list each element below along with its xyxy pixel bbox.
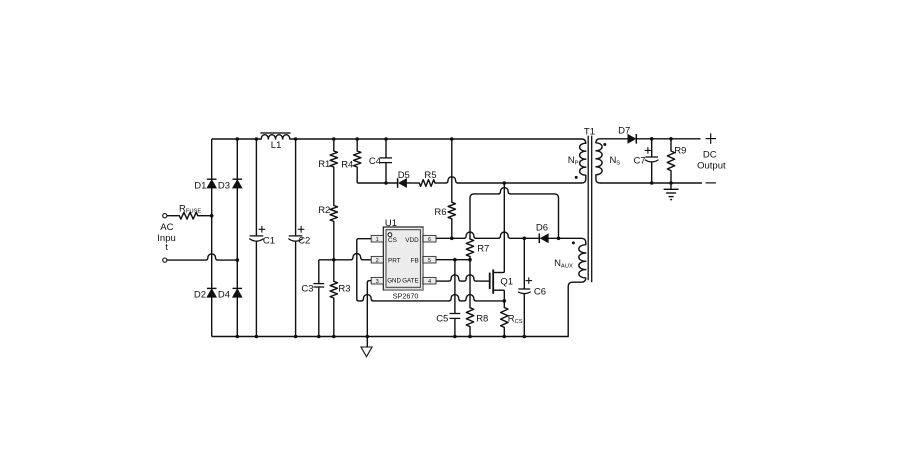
svg-text:R7: R7 [477,244,489,255]
svg-text:DC: DC [703,149,717,160]
svg-text:R1: R1 [318,159,330,170]
svg-text:SP2670: SP2670 [393,292,419,301]
svg-text:D6: D6 [536,223,548,234]
svg-text:GATE: GATE [402,278,418,285]
svg-text:1: 1 [376,237,379,243]
svg-text:D2: D2 [194,290,206,301]
svg-text:C4: C4 [369,156,381,167]
svg-text:FUSE: FUSE [186,209,202,215]
svg-text:FB: FB [411,257,419,264]
svg-text:4: 4 [428,279,431,285]
svg-text:3: 3 [376,279,379,285]
svg-text:U1: U1 [385,218,397,229]
svg-text:CS: CS [515,319,523,325]
svg-text:D7: D7 [618,126,630,137]
svg-text:R4: R4 [341,159,353,170]
svg-text:GND: GND [387,278,401,285]
svg-text:Q1: Q1 [500,277,513,288]
svg-text:C6: C6 [534,287,546,298]
svg-text:C3: C3 [301,284,313,295]
svg-text:R8: R8 [476,314,488,325]
svg-text:R2: R2 [318,205,330,216]
svg-text:t: t [165,242,168,253]
svg-text:R9: R9 [674,145,686,156]
svg-text:6: 6 [428,237,431,243]
svg-text:C2: C2 [298,236,310,247]
svg-text:C5: C5 [436,314,448,325]
svg-text:P: P [575,160,579,166]
svg-text:5: 5 [428,258,431,264]
svg-text:R5: R5 [424,170,436,181]
svg-text:L1: L1 [271,140,282,151]
svg-text:PRT: PRT [388,257,401,264]
svg-text:D3: D3 [218,180,230,191]
svg-text:T1: T1 [584,126,595,137]
svg-text:Output: Output [697,161,726,172]
svg-text:R6: R6 [434,207,446,218]
svg-text:C7: C7 [634,156,646,167]
svg-text:D4: D4 [218,290,230,301]
svg-text:CS: CS [388,237,397,244]
svg-text:VDD: VDD [405,237,419,244]
svg-text:AUX: AUX [561,263,573,269]
svg-text:R3: R3 [338,284,350,295]
svg-text:D1: D1 [194,180,206,191]
svg-text:D5: D5 [398,170,410,181]
svg-text:C1: C1 [263,236,275,247]
svg-text:2: 2 [376,258,379,264]
svg-text:S: S [616,160,620,166]
svg-text:AC: AC [160,222,173,233]
